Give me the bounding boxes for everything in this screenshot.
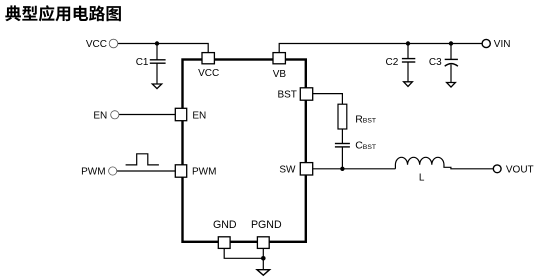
svg-text:VB: VB (273, 69, 287, 80)
ground under C3 (447, 83, 456, 88)
wire SW to inductor (313, 168, 396, 170)
svg-text:VOUT: VOUT (506, 165, 534, 176)
svg-text:L: L (419, 172, 425, 183)
wire PWM lead (116, 170, 176, 172)
pin PWM (175, 165, 186, 177)
svg-text:EN: EN (93, 110, 107, 121)
svg-text:C1: C1 (136, 57, 149, 68)
resistor RBST (338, 104, 347, 129)
svg-text:GND: GND (213, 219, 237, 231)
wire C2 bottom lead (407, 62, 409, 82)
wire C2 top lead (407, 44, 409, 59)
wire EN lead (118, 114, 176, 116)
terminal VOUT (493, 165, 501, 173)
terminal EN (111, 111, 119, 119)
svg-text:C2: C2 (386, 57, 399, 68)
wire BST to RBST (313, 94, 343, 105)
pin VB (273, 53, 285, 64)
node junction on VCC rail (155, 41, 159, 45)
wire VB to VIN rail (279, 44, 482, 53)
wire C1 top lead (156, 44, 158, 60)
terminal PWM (109, 167, 117, 175)
pin GND (218, 237, 230, 249)
wire C1 bottom lead (156, 63, 158, 84)
ground under C1 (152, 84, 161, 89)
terminal VIN (482, 39, 490, 47)
node junction at C2 (406, 41, 410, 45)
svg-text:PWM: PWM (81, 167, 105, 178)
svg-text:BST: BST (277, 90, 296, 101)
inductor L (395, 157, 493, 169)
wire VCC rail (118, 44, 209, 53)
pulse waveform symbol (126, 154, 159, 165)
svg-text:VCC: VCC (198, 68, 219, 79)
wire CBST to SW node (341, 147, 343, 169)
svg-text:PGND: PGND (251, 219, 282, 231)
svg-text:C3: C3 (429, 57, 442, 68)
pin EN (175, 108, 186, 120)
svg-text:VCC: VCC (86, 39, 107, 50)
title 典型应用电路图 (5, 5, 121, 21)
node junction at C3 (449, 41, 453, 45)
wire RBST to CBST (341, 129, 343, 143)
pin SW (300, 163, 312, 175)
wire GND to PGND join (224, 248, 263, 258)
terminal VCC (109, 39, 118, 48)
svg-text:EN: EN (192, 110, 206, 121)
pin BST (300, 88, 312, 100)
IC U1 body (183, 60, 306, 242)
wire C3 bottom lead (450, 65, 452, 83)
svg-text:VIN: VIN (494, 39, 511, 50)
pin VCC (202, 53, 214, 64)
node junction below PGND (261, 256, 266, 261)
svg-text:SW: SW (279, 164, 296, 175)
capacitor C1 (150, 60, 166, 63)
capacitor CBST (335, 144, 350, 147)
ground under C2 (404, 82, 413, 87)
ground main (257, 270, 270, 276)
capacitor C3 (445, 59, 458, 66)
wire PGND down (262, 248, 264, 270)
wire C3 top lead (450, 44, 452, 60)
capacitor C2 (402, 59, 415, 62)
svg-text:PWM: PWM (192, 167, 216, 178)
pin PGND (257, 237, 269, 249)
node junction at SW net (340, 167, 344, 171)
